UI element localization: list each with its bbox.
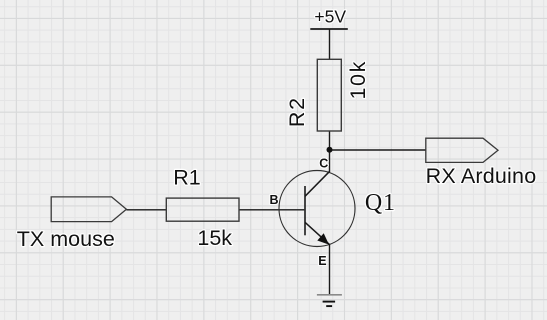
svg-text:R2: R2 — [285, 96, 309, 127]
svg-text:TX mouse: TX mouse — [17, 227, 115, 251]
svg-text:15k: 15k — [197, 226, 232, 250]
svg-text:C: C — [319, 157, 328, 171]
svg-text:B: B — [270, 193, 279, 207]
svg-text:E: E — [318, 254, 326, 268]
svg-text:R1: R1 — [173, 165, 200, 189]
svg-text:Q1: Q1 — [365, 190, 396, 216]
svg-text:+5V: +5V — [314, 7, 346, 27]
svg-text:RX Arduino: RX Arduino — [426, 164, 537, 188]
svg-text:10k: 10k — [346, 60, 370, 99]
